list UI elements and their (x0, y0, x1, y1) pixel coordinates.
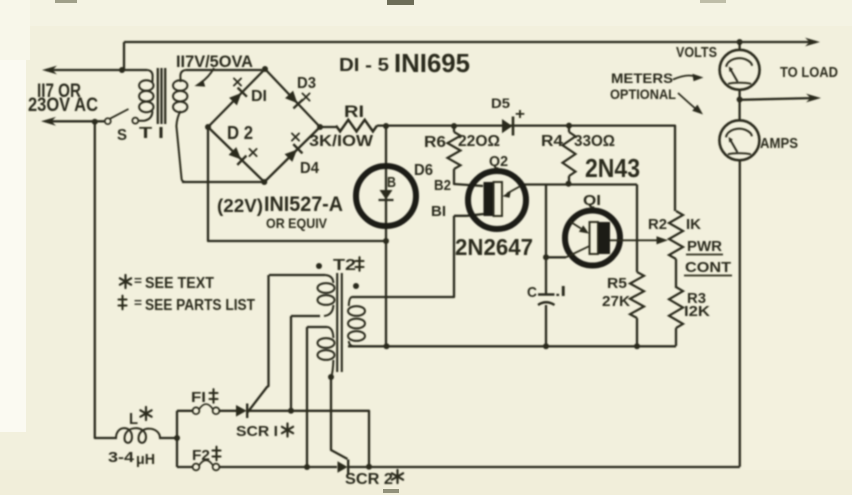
svg-text:TO LOAD: TO LOAD (780, 65, 838, 81)
svg-text:QI: QI (583, 192, 601, 209)
svg-text:R2: R2 (648, 216, 667, 233)
svg-text:SCR I: SCR I (236, 423, 278, 440)
svg-text:B2: B2 (434, 177, 451, 194)
svg-text:IK: IK (686, 216, 701, 233)
svg-text:VOLTS: VOLTS (676, 45, 717, 61)
svg-text:2N43: 2N43 (585, 153, 640, 183)
svg-text:INI527-A: INI527-A (264, 193, 343, 216)
svg-text:D5: D5 (491, 95, 510, 111)
svg-text:OPTIONAL: OPTIONAL (610, 86, 676, 102)
svg-text:T I: T I (139, 125, 164, 142)
svg-text:METERS: METERS (611, 70, 673, 86)
svg-text:R5: R5 (607, 275, 627, 292)
svg-text:BI: BI (431, 203, 446, 220)
svg-text:OR EQUIV: OR EQUIV (266, 215, 328, 231)
svg-text:SEE PARTS LIST: SEE PARTS LIST (145, 297, 255, 314)
svg-text:RI: RI (344, 102, 364, 121)
svg-text:C: C (527, 284, 537, 301)
svg-text:(22V): (22V) (217, 196, 263, 216)
svg-text:Q2: Q2 (489, 153, 508, 170)
svg-text:II7V/5OVA: II7V/5OVA (176, 53, 253, 71)
svg-text:μH: μH (136, 451, 155, 468)
svg-text:FI: FI (191, 389, 206, 406)
svg-text:D 2: D 2 (227, 123, 253, 143)
svg-text:CONT: CONT (685, 259, 731, 276)
svg-text:R6: R6 (424, 134, 446, 151)
svg-text:T2: T2 (333, 257, 356, 274)
svg-text:3K/IOW: 3K/IOW (309, 133, 374, 150)
svg-text:I2K: I2K (684, 303, 710, 320)
svg-text:27K: 27K (602, 293, 630, 310)
svg-text:PWR: PWR (687, 238, 722, 255)
svg-text:23OV AC: 23OV AC (28, 95, 98, 116)
svg-text:=: = (134, 295, 142, 310)
svg-text:D6: D6 (414, 162, 433, 179)
svg-text:=: = (134, 273, 142, 288)
svg-text:D4: D4 (300, 160, 319, 177)
svg-text:S: S (117, 127, 127, 144)
svg-text:D3: D3 (297, 75, 316, 92)
svg-text:3-4: 3-4 (108, 449, 135, 466)
svg-text:DI - 5: DI - 5 (339, 55, 389, 75)
svg-text:B: B (387, 174, 396, 191)
svg-text:2N2647: 2N2647 (455, 234, 533, 260)
svg-text:22OΩ: 22OΩ (458, 133, 500, 150)
svg-text:SCR 2: SCR 2 (345, 471, 393, 488)
svg-text:F2: F2 (192, 447, 210, 464)
svg-text:DI: DI (251, 88, 267, 105)
svg-text:33OΩ: 33OΩ (574, 133, 615, 150)
svg-text:SEE TEXT: SEE TEXT (145, 275, 214, 292)
svg-text:INI695: INI695 (394, 48, 470, 78)
svg-text:R4: R4 (541, 133, 563, 150)
svg-text:+: + (515, 106, 525, 123)
svg-text:L: L (129, 411, 138, 428)
svg-text:.I: .I (555, 283, 566, 300)
svg-text:AMPS: AMPS (760, 136, 798, 152)
